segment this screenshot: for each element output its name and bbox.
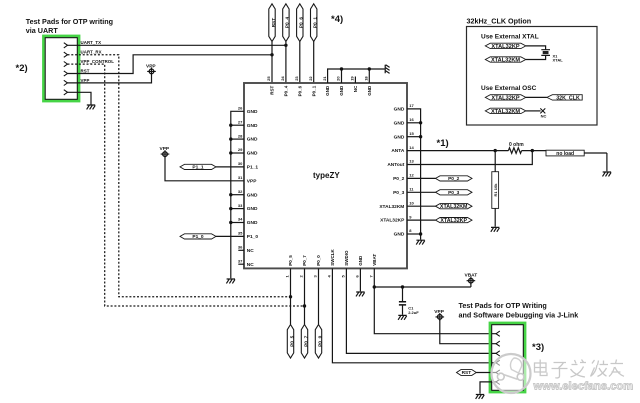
U1 pin 15 stub bbox=[407, 136, 421, 138]
net label XTAL32KP bbox=[436, 218, 473, 224]
svg-text:8: 8 bbox=[409, 228, 412, 233]
net label P1_0 bbox=[180, 234, 216, 240]
svg-text:XTAL32KM: XTAL32KM bbox=[440, 204, 468, 210]
wire U1 pin3 P0_0 to pad bbox=[318, 268, 320, 324]
J1 pin 2 arrow bbox=[64, 52, 68, 57]
U1 pin 28 stub bbox=[231, 138, 244, 140]
label box no load bbox=[546, 150, 584, 157]
svg-text:SWCLK: SWCLK bbox=[330, 249, 335, 266]
svg-text:P1_0: P1_0 bbox=[192, 234, 204, 240]
wire SWCLK pin4 to J2 pin4 bbox=[332, 268, 496, 362]
svg-text:P0_2: P0_2 bbox=[448, 176, 460, 182]
wire XTAL32KP to 32K_CLK bbox=[526, 96, 547, 98]
J1 pin 6 arrow bbox=[64, 90, 68, 95]
net label P0_3 bbox=[436, 190, 473, 196]
svg-text:RST: RST bbox=[81, 68, 90, 73]
svg-text:26: 26 bbox=[238, 106, 243, 111]
svg-text:XTAL32KP: XTAL32KP bbox=[491, 44, 519, 50]
svg-text:31: 31 bbox=[238, 175, 243, 180]
svg-text:P0_4: P0_4 bbox=[284, 85, 289, 96]
svg-text:GND: GND bbox=[247, 220, 258, 226]
svg-text:*4): *4) bbox=[331, 14, 343, 25]
svg-text:GND: GND bbox=[247, 109, 258, 115]
svg-text:P0_0: P0_0 bbox=[317, 335, 323, 347]
svg-text:3: 3 bbox=[313, 275, 318, 278]
wire VPP to VPP supply bbox=[68, 74, 152, 83]
svg-text:P0_0: P0_0 bbox=[316, 255, 321, 266]
ground left bus bbox=[226, 279, 235, 283]
test pad P0_6 (top) bbox=[297, 4, 305, 42]
svg-text:ANTout: ANTout bbox=[387, 162, 404, 168]
svg-text:P0_6: P0_6 bbox=[297, 85, 302, 96]
junction node after 0 ohm bbox=[531, 149, 534, 152]
wire XTAL32KP to pin 9 bbox=[407, 219, 436, 221]
svg-text:and Software Debugging via J-L: and Software Debugging via J-Link bbox=[459, 311, 579, 320]
svg-text:32K_CLK: 32K_CLK bbox=[556, 95, 580, 101]
watermark elecfans logo bbox=[492, 354, 531, 393]
right pin numbers bbox=[409, 103, 414, 233]
junction VBAT bbox=[373, 285, 376, 288]
J1 pin 3 arrow bbox=[64, 62, 68, 67]
J2 pin 4 arrow bbox=[496, 360, 500, 365]
svg-text:19: 19 bbox=[350, 76, 355, 81]
U1 pin 18 stub bbox=[368, 69, 370, 83]
wire RST pad to U1 pin 25 bbox=[271, 42, 273, 84]
ground below R1 bbox=[491, 227, 500, 231]
wire ANTout pin13 up to node bbox=[407, 151, 532, 165]
svg-text:2.2uF: 2.2uF bbox=[408, 310, 419, 315]
wire P1_0 to U1 pin 35 bbox=[216, 235, 244, 237]
wire P0_6 pad to U1 pin 23 bbox=[299, 42, 301, 84]
svg-text:Test Pads for OTP Writing: Test Pads for OTP Writing bbox=[459, 301, 547, 310]
svg-text:via UART: via UART bbox=[26, 26, 59, 35]
wire VPP supply to J2 pin2 bbox=[440, 320, 496, 344]
flag 32K_CLK bbox=[547, 95, 582, 102]
svg-text:1: 1 bbox=[285, 275, 290, 278]
svg-text:29: 29 bbox=[238, 147, 243, 152]
svg-text:SWDIO: SWDIO bbox=[344, 250, 349, 266]
svg-text:GND: GND bbox=[339, 85, 344, 96]
svg-text:NC: NC bbox=[541, 114, 547, 119]
svg-text:0 ohm: 0 ohm bbox=[509, 142, 524, 148]
svg-text:VPP: VPP bbox=[81, 78, 90, 83]
svg-text:36: 36 bbox=[238, 245, 243, 250]
J2 pin 1 arrow bbox=[496, 331, 500, 336]
svg-text:*2): *2) bbox=[16, 63, 28, 74]
svg-text:GND: GND bbox=[367, 85, 372, 96]
svg-text:P0_7: P0_7 bbox=[303, 335, 309, 347]
wire P0_3 to pin 11 bbox=[407, 191, 436, 193]
U1 pin 27 stub bbox=[231, 124, 244, 126]
svg-text:RST: RST bbox=[271, 18, 277, 28]
svg-text:NC: NC bbox=[247, 248, 254, 254]
svg-text:9: 9 bbox=[409, 214, 412, 219]
svg-text:P1_1: P1_1 bbox=[247, 165, 259, 171]
U1 top GND bus bbox=[328, 69, 385, 83]
wire RST to J2 pin 5 bbox=[476, 372, 496, 374]
wire UART_TX to pad P0_4 column bbox=[68, 44, 286, 46]
net label XTAL32KM (osc) bbox=[485, 108, 526, 115]
bottom pin names bbox=[288, 249, 377, 266]
wire XTAL32KM to crystal bbox=[526, 55, 546, 59]
wire no load to ground bbox=[584, 153, 607, 171]
svg-text:VPP: VPP bbox=[247, 178, 257, 184]
wire P0_1 pad to U1 pin 22 bbox=[313, 42, 315, 84]
svg-text:P0_2: P0_2 bbox=[393, 176, 405, 182]
wire VBAT pin7 down to J2 pin1 bbox=[374, 268, 496, 333]
svg-text:XTAL32KM: XTAL32KM bbox=[491, 109, 520, 115]
svg-text:no load: no load bbox=[556, 151, 574, 157]
wire ANTA pin14 to R network bbox=[407, 150, 508, 152]
U1 right GND bus bbox=[407, 109, 421, 240]
svg-text:P0_5: P0_5 bbox=[288, 255, 293, 266]
svg-text:NC: NC bbox=[247, 262, 254, 268]
U1 pin 19 stub NC bbox=[354, 77, 356, 84]
wire XTAL32KM to pin 10 bbox=[407, 205, 436, 207]
resistor R 0 ohm (zigzag) bbox=[508, 148, 521, 154]
svg-text:30: 30 bbox=[238, 161, 243, 166]
capacitor C1 2.2uF bbox=[399, 287, 419, 315]
svg-text:20: 20 bbox=[336, 76, 341, 81]
svg-text:P0_3: P0_3 bbox=[393, 190, 405, 196]
wire VPP_CONTROL (dashed) down and to P0_7 column bbox=[68, 64, 305, 306]
svg-text:7: 7 bbox=[369, 275, 374, 278]
junction VPP_CONTROL / P0_7 bbox=[303, 304, 306, 307]
svg-text:34: 34 bbox=[238, 217, 243, 222]
test pad P0_5 (bottom) bbox=[287, 325, 295, 359]
junction UART_TX / P0_4 bbox=[284, 44, 287, 47]
svg-text:Test Pads for OTP writing: Test Pads for OTP writing bbox=[26, 17, 113, 26]
wire R1 to ground bbox=[494, 208, 496, 226]
svg-text:35: 35 bbox=[238, 231, 243, 236]
svg-text:typeZY: typeZY bbox=[313, 171, 340, 180]
wire P0_4 pad to U1 pin 24 bbox=[285, 42, 287, 84]
svg-text:GND: GND bbox=[358, 255, 363, 266]
svg-text:17: 17 bbox=[409, 103, 414, 108]
svg-text:10: 10 bbox=[409, 200, 414, 205]
U1 pin 20 stub bbox=[341, 69, 343, 83]
test pad P0_1 (top) bbox=[311, 4, 319, 42]
svg-text:33: 33 bbox=[238, 203, 243, 208]
wire VPP to U1 pin 31 bbox=[165, 157, 244, 181]
net label XTAL32KM (xtal) bbox=[485, 57, 526, 64]
J1 pin 4 arrow bbox=[64, 71, 68, 76]
svg-text:P0_1: P0_1 bbox=[313, 17, 319, 29]
supply VPP (bottom) bbox=[436, 313, 445, 321]
svg-text:4: 4 bbox=[327, 275, 332, 278]
svg-text:25: 25 bbox=[266, 76, 271, 81]
supply VPP (top left) bbox=[147, 67, 156, 75]
svg-text:GND: GND bbox=[247, 192, 258, 198]
U1 pin 8 stub bbox=[407, 233, 421, 235]
wire VBAT node to supply bbox=[374, 283, 471, 287]
supply VPP (left mid) bbox=[161, 150, 170, 158]
svg-text:P1_0: P1_0 bbox=[247, 234, 259, 240]
svg-text:XTAL32KP: XTAL32KP bbox=[440, 218, 467, 224]
svg-text:P0_5: P0_5 bbox=[289, 335, 295, 347]
connector J1 test pads UART (green box) bbox=[44, 36, 80, 101]
watermark chinese text 电子发烧友 bbox=[535, 360, 625, 378]
svg-text:28: 28 bbox=[238, 133, 243, 138]
svg-text:XTAL32KP: XTAL32KP bbox=[491, 95, 519, 101]
svg-text:NC: NC bbox=[353, 85, 358, 92]
wire RST to pad RST column bbox=[68, 55, 273, 74]
wire U1 pin1 P0_5 to pad bbox=[290, 268, 292, 324]
svg-text:VPP: VPP bbox=[434, 309, 444, 315]
svg-text:14: 14 bbox=[409, 145, 414, 150]
svg-text:18: 18 bbox=[364, 76, 369, 81]
svg-text:6: 6 bbox=[355, 275, 360, 278]
svg-text:37: 37 bbox=[238, 258, 243, 263]
svg-text:22: 22 bbox=[308, 76, 313, 81]
net label P1_1 bbox=[180, 164, 216, 170]
svg-text:P0_7: P0_7 bbox=[302, 255, 307, 266]
junction C1 bbox=[401, 285, 404, 288]
svg-text:VBAT: VBAT bbox=[465, 272, 478, 278]
svg-text:Use External XTAL: Use External XTAL bbox=[481, 34, 539, 41]
svg-text:P1_1: P1_1 bbox=[192, 164, 204, 170]
net label RST (J2) bbox=[457, 370, 477, 377]
crystal X1 bbox=[541, 50, 563, 63]
svg-text:16: 16 bbox=[409, 117, 414, 122]
junction UART_RX / P0_5 bbox=[289, 295, 292, 298]
supply VBAT bbox=[467, 277, 476, 285]
U1 left GND bus wire bbox=[231, 111, 244, 278]
svg-text:Use External OSC: Use External OSC bbox=[481, 85, 537, 92]
svg-text:GND: GND bbox=[325, 85, 330, 96]
svg-text:11: 11 bbox=[409, 187, 414, 192]
wire GND pin6 to ground bbox=[359, 268, 361, 291]
svg-text:VBAT: VBAT bbox=[372, 254, 377, 266]
NC cross bbox=[540, 108, 546, 118]
svg-text:5: 5 bbox=[341, 275, 346, 278]
test pad P0_4 (top) bbox=[283, 4, 291, 42]
junction RST / RST pad bbox=[270, 53, 273, 56]
svg-text:32kHz_CLK Option: 32kHz_CLK Option bbox=[467, 17, 532, 26]
svg-text:13: 13 bbox=[409, 159, 414, 164]
svg-text:24: 24 bbox=[280, 76, 285, 81]
ground below J1 bbox=[87, 105, 96, 109]
svg-text:GND: GND bbox=[394, 232, 405, 238]
J2 pin 5 arrow bbox=[496, 370, 500, 375]
svg-text:P0_1: P0_1 bbox=[311, 85, 316, 96]
U1 pin 33 stub bbox=[231, 208, 244, 210]
U1 pin 37 stub NC bbox=[238, 263, 244, 265]
svg-text:21: 21 bbox=[322, 76, 327, 81]
svg-text:*3): *3) bbox=[532, 342, 544, 353]
ground top right (rotated) bbox=[385, 65, 389, 74]
svg-text:15: 15 bbox=[409, 131, 414, 136]
svg-text:XTAL32KM: XTAL32KM bbox=[379, 204, 404, 210]
svg-text:*1): *1) bbox=[437, 138, 449, 149]
top pin numbers bbox=[266, 76, 368, 81]
ground below J2 bbox=[476, 395, 485, 399]
ground below pin6 bbox=[356, 292, 365, 296]
svg-text:www.elecfans.com: www.elecfans.com bbox=[533, 381, 634, 393]
svg-text:ANTA: ANTA bbox=[391, 148, 405, 154]
wire J2 pin6 to ground bbox=[480, 382, 496, 394]
svg-text:GND: GND bbox=[394, 107, 405, 113]
J1 pin 1 arrow bbox=[64, 43, 68, 48]
svg-text:XTAL: XTAL bbox=[553, 58, 564, 63]
test pad P0_7 (bottom) bbox=[301, 325, 309, 359]
svg-text:GND: GND bbox=[247, 206, 258, 212]
svg-text:R1 10k: R1 10k bbox=[493, 183, 498, 197]
ground below C1 bbox=[398, 315, 407, 319]
svg-text:XTAL32KP: XTAL32KP bbox=[380, 218, 405, 224]
J2 pin 6 arrow bbox=[496, 379, 500, 384]
wire XTAL32KP to crystal bbox=[526, 46, 546, 50]
svg-text:23: 23 bbox=[294, 76, 299, 81]
svg-text:27: 27 bbox=[238, 119, 243, 124]
svg-text:UART_TX: UART_TX bbox=[81, 40, 102, 45]
svg-text:VPP: VPP bbox=[160, 146, 170, 152]
wire SWDIO pin5 to J2 pin3 bbox=[346, 268, 496, 353]
wire J1 pin6 to ground bbox=[68, 92, 92, 104]
bottom pin numbers bbox=[285, 275, 374, 278]
wire XTAL32KM to NC cross bbox=[526, 110, 541, 112]
svg-text:UART_RX: UART_RX bbox=[81, 50, 102, 55]
svg-text:VPP_CONTROL: VPP_CONTROL bbox=[81, 59, 115, 64]
svg-text:VPP: VPP bbox=[146, 63, 156, 69]
net label XTAL32KM bbox=[436, 204, 473, 210]
wire node to resistor R1 bbox=[494, 151, 496, 172]
J2 pin 3 arrow bbox=[496, 351, 500, 356]
U1 pin 16 stub bbox=[407, 122, 421, 124]
U1 pin 36 stub NC bbox=[238, 249, 244, 251]
ground tie load bbox=[603, 172, 612, 176]
svg-text:GND: GND bbox=[247, 151, 258, 157]
U1 pin 34 stub bbox=[231, 222, 244, 224]
connector J2 J-Link (green box) bbox=[490, 323, 525, 392]
svg-text:XTAL32KM: XTAL32KM bbox=[491, 57, 520, 63]
wire after 0 ohm bbox=[522, 150, 546, 152]
U1 pin 32 stub bbox=[231, 194, 244, 196]
svg-text:GND: GND bbox=[247, 123, 258, 129]
wire P1_1 to U1 pin 30 bbox=[216, 166, 244, 168]
resistor R1 (box) bbox=[492, 172, 499, 209]
net label XTAL32KP (xtal) bbox=[485, 43, 526, 50]
svg-text:GND: GND bbox=[394, 120, 405, 126]
test pad RST (top) bbox=[269, 4, 277, 42]
U1 pin 29 stub bbox=[231, 152, 244, 154]
top pin names bbox=[270, 85, 372, 96]
net label P0_2 bbox=[436, 176, 473, 182]
wire U1 pin2 P0_7 to pad bbox=[304, 268, 306, 324]
ground right bus bbox=[416, 240, 425, 244]
IC U1 typeZY body bbox=[244, 83, 407, 268]
junction node ANTA bbox=[494, 149, 497, 152]
svg-text:P0_3: P0_3 bbox=[448, 190, 460, 196]
wire UART_RX (dashed) down and to P0_5 column bbox=[68, 55, 291, 297]
left pin names bbox=[247, 109, 259, 268]
svg-text:12: 12 bbox=[409, 173, 414, 178]
net label XTAL32KP (osc) bbox=[485, 95, 526, 102]
svg-text:P0_4: P0_4 bbox=[285, 17, 291, 29]
svg-text:GND: GND bbox=[247, 137, 258, 143]
svg-text:P0_6: P0_6 bbox=[299, 17, 305, 29]
svg-text:2: 2 bbox=[299, 275, 304, 278]
right pin names bbox=[379, 107, 405, 238]
svg-text:RST: RST bbox=[462, 370, 472, 376]
J2 pin 2 arrow bbox=[496, 341, 500, 346]
wire P0_2 to pin 12 bbox=[407, 177, 436, 179]
J1 pin 5 arrow bbox=[64, 80, 68, 85]
svg-text:32: 32 bbox=[238, 189, 243, 194]
left pin numbers bbox=[238, 106, 243, 264]
svg-text:RST: RST bbox=[270, 86, 275, 95]
svg-text:GND: GND bbox=[394, 134, 405, 140]
test pad P0_0 (bottom) bbox=[315, 325, 323, 359]
